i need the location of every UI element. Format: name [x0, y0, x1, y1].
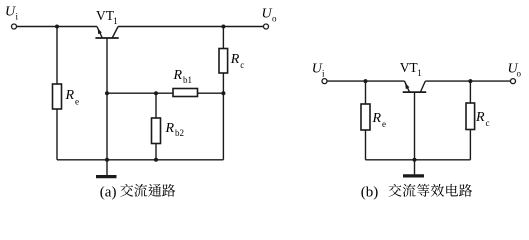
svg-text:b2: b2	[175, 128, 184, 138]
svg-text:R: R	[475, 110, 485, 125]
svg-text:o: o	[517, 69, 522, 79]
svg-text:VT: VT	[96, 8, 115, 23]
svg-text:e: e	[75, 97, 79, 107]
svg-text:U: U	[262, 7, 273, 22]
svg-text:R: R	[173, 68, 183, 83]
svg-text:1: 1	[113, 16, 118, 26]
svg-text:R: R	[230, 52, 240, 67]
svg-text:c: c	[486, 118, 490, 128]
svg-text:(b): (b)	[361, 184, 379, 200]
svg-text:b1: b1	[183, 75, 192, 85]
svg-text:(a): (a)	[100, 184, 117, 200]
svg-text:R: R	[165, 121, 175, 136]
svg-text:c: c	[240, 60, 244, 70]
svg-text:e: e	[382, 119, 386, 129]
svg-text:VT: VT	[400, 60, 419, 75]
svg-text:o: o	[272, 14, 277, 24]
svg-text:R: R	[65, 88, 75, 103]
svg-text:R: R	[372, 111, 382, 126]
svg-text:1: 1	[417, 68, 422, 78]
svg-text:U: U	[5, 5, 16, 20]
